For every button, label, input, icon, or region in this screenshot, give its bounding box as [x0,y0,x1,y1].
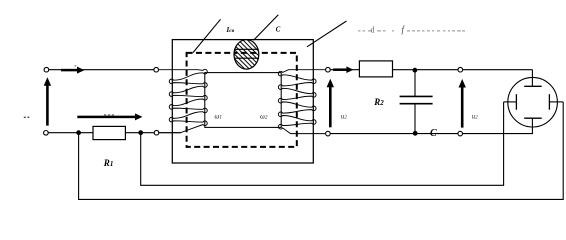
svg-text:R2: R2 [373,97,384,107]
svg-text:u2: u2 [341,113,348,121]
svg-text:Iсв: Iсв [226,26,235,34]
svg-text:u2: u2 [472,113,479,121]
svg-text:R1: R1 [103,158,114,168]
svg-text:С: С [276,26,281,33]
svg-text:d: d [371,25,375,34]
svg-text:ω2: ω2 [260,114,268,121]
svg-text:C: C [430,128,437,139]
svg-text:ω1: ω1 [215,114,223,121]
